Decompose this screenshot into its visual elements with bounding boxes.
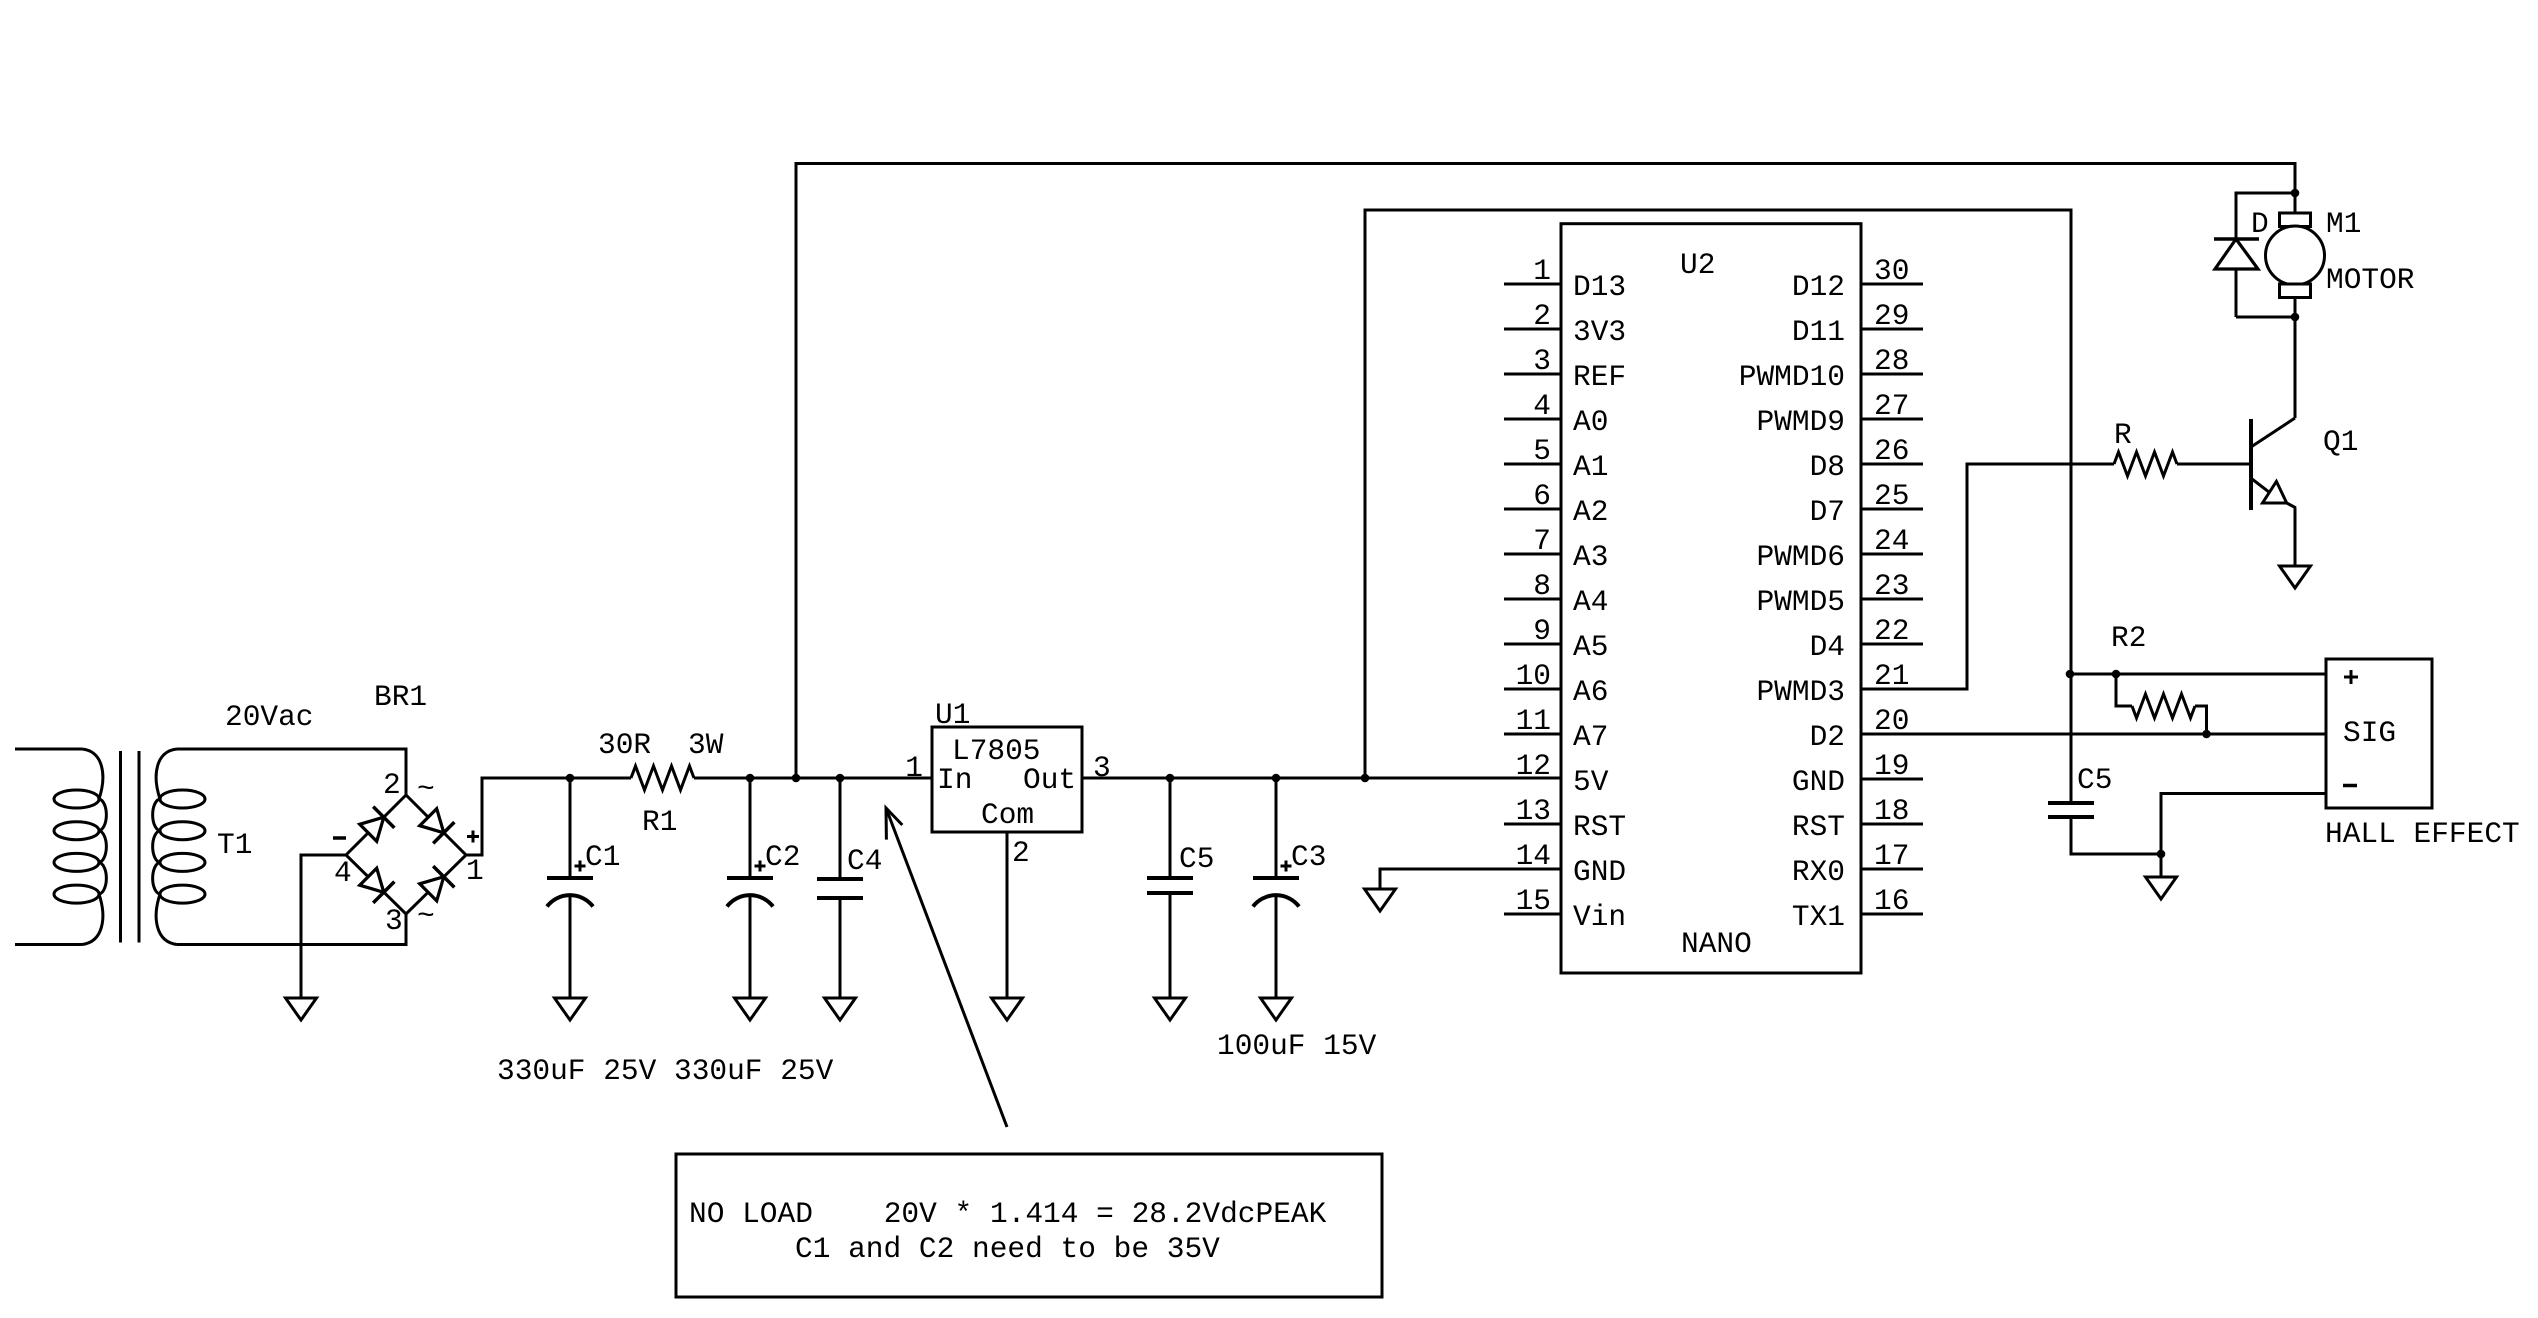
svg-text:3: 3 xyxy=(1533,344,1551,378)
svg-text:30R: 30R xyxy=(598,728,651,762)
svg-text:6: 6 xyxy=(1533,479,1551,513)
svg-text:C1 and C2 need to be 35V: C1 and C2 need to be 35V xyxy=(795,1232,1220,1266)
U2 pin 4 A0 xyxy=(1504,389,1608,439)
svg-text:2: 2 xyxy=(383,768,401,802)
node motor bottom xyxy=(2291,313,2300,322)
U2 pin 7 A3 xyxy=(1504,524,1608,574)
svg-text:Vin: Vin xyxy=(1573,900,1626,934)
U2 pin 16 TX1 xyxy=(1792,884,1923,934)
U2 pin 26 D8 xyxy=(1810,434,1923,484)
svg-text:A6: A6 xyxy=(1573,675,1608,709)
node 5V hall supply corner xyxy=(2066,670,2075,679)
svg-text:1: 1 xyxy=(466,854,484,888)
ground at U1 Com xyxy=(992,998,1023,1020)
U2 pin 20 D2 xyxy=(1810,704,1923,754)
svg-text:D12: D12 xyxy=(1792,270,1845,304)
svg-text:4: 4 xyxy=(1533,389,1551,423)
resistor R xyxy=(2114,452,2177,476)
wire 5V feedback rail to hall supply xyxy=(1365,210,2071,778)
node rail at feedback wire xyxy=(792,774,801,783)
svg-text:D13: D13 xyxy=(1573,270,1626,304)
wire diode D bracket xyxy=(2236,193,2295,317)
U2 pin 3 REF xyxy=(1504,344,1626,394)
svg-text:A0: A0 xyxy=(1573,405,1608,439)
capacitor C4 plates xyxy=(817,877,863,881)
wire U1 Out to U2 pin12 5V rail xyxy=(1082,777,1561,780)
svg-text:RX0: RX0 xyxy=(1792,855,1845,889)
diode D xyxy=(2214,239,2259,269)
U2 pin 19 GND xyxy=(1792,749,1923,799)
capacitor C2 plates xyxy=(727,876,773,880)
svg-text:D2: D2 xyxy=(1810,720,1845,754)
svg-text:D8: D8 xyxy=(1810,450,1845,484)
capacitor C5 plates xyxy=(1147,876,1193,880)
svg-text:PWMD10: PWMD10 xyxy=(1739,360,1845,394)
svg-text:19: 19 xyxy=(1874,749,1909,783)
svg-text:12: 12 xyxy=(1516,749,1551,783)
svg-text:20Vac: 20Vac xyxy=(225,700,314,734)
transistor Q1 xyxy=(2251,418,2296,510)
svg-text:18: 18 xyxy=(1874,794,1909,828)
svg-text:SIG: SIG xyxy=(2343,716,2396,750)
motor M1 xyxy=(2266,193,2325,317)
svg-text:A7: A7 xyxy=(1573,720,1608,754)
capacitor C3 plus mark xyxy=(1281,861,1292,872)
U2 pin 23 PWMD5 xyxy=(1756,569,1923,619)
bridge rectifier BR1 xyxy=(346,795,466,914)
wire 5V supply to hall plus xyxy=(2070,673,2326,676)
BR1 plus mark xyxy=(467,831,479,843)
svg-text:5: 5 xyxy=(1533,434,1551,468)
node motor top xyxy=(2291,189,2300,198)
svg-text:R1: R1 xyxy=(642,805,677,839)
svg-text:NANO: NANO xyxy=(1681,927,1752,961)
U2 pin 21 PWMD3 xyxy=(1756,659,1923,709)
U2 pin 30 D12 xyxy=(1792,254,1923,304)
svg-text:D7: D7 xyxy=(1810,495,1845,529)
svg-text:330uF 25V: 330uF 25V xyxy=(497,1054,657,1088)
microcontroller U2 NANO box xyxy=(1561,224,1861,973)
wire Q1 collector to motor xyxy=(2294,317,2297,418)
ground at C1 xyxy=(555,998,586,1020)
svg-text:2: 2 xyxy=(1533,299,1551,333)
ground at C4 xyxy=(825,998,856,1020)
ground at C3 xyxy=(1261,998,1292,1020)
note leader arrow xyxy=(886,808,1007,1127)
node rail at C1 xyxy=(566,774,575,783)
svg-text:29: 29 xyxy=(1874,299,1909,333)
svg-text:23: 23 xyxy=(1874,569,1909,603)
note box xyxy=(676,1154,1382,1297)
svg-text:D11: D11 xyxy=(1792,315,1845,349)
wire Q1 emitter to ground xyxy=(2294,508,2297,566)
svg-text:3: 3 xyxy=(1093,751,1111,785)
node rail at C2 xyxy=(746,774,755,783)
wire VIN feedback rail to motor xyxy=(796,164,2295,779)
U2 pin 12 5V xyxy=(1516,749,1609,799)
node R2 to SIG line xyxy=(2202,730,2211,739)
svg-text:A1: A1 xyxy=(1573,450,1608,484)
U2 pin 5 A1 xyxy=(1504,434,1608,484)
svg-text:TX1: TX1 xyxy=(1792,900,1845,934)
svg-text:HALL EFFECT: HALL EFFECT xyxy=(2325,817,2520,851)
svg-text:PWMD3: PWMD3 xyxy=(1756,675,1845,709)
svg-text:A4: A4 xyxy=(1573,585,1608,619)
node R2 top tap xyxy=(2112,670,2121,679)
wire U1 Com to ground xyxy=(1006,832,1009,998)
svg-text:330uF 25V: 330uF 25V xyxy=(674,1054,834,1088)
hall label minus xyxy=(2343,784,2357,788)
node rail at C4 xyxy=(836,774,845,783)
svg-text:PWMD5: PWMD5 xyxy=(1756,585,1845,619)
svg-text:100uF 15V: 100uF 15V xyxy=(1217,1029,1377,1063)
capacitor C5 bottom leg xyxy=(1169,893,1172,998)
capacitor C2 bottom leg xyxy=(749,894,752,998)
svg-text:GND: GND xyxy=(1792,765,1845,799)
svg-text:R2: R2 xyxy=(2111,621,2146,655)
wire BR1 minus to ground xyxy=(301,855,346,998)
capacitor C4 top leg xyxy=(839,778,842,879)
capacitor C3 top leg xyxy=(1275,778,1278,878)
svg-text:PWMD9: PWMD9 xyxy=(1756,405,1845,439)
svg-text:27: 27 xyxy=(1874,389,1909,423)
U2 pin 10 A6 xyxy=(1504,659,1608,709)
wire secondary top to BR1 pin2 xyxy=(177,749,406,795)
svg-text:A5: A5 xyxy=(1573,630,1608,664)
capacitor C2 plus mark xyxy=(755,861,766,872)
svg-text:T1: T1 xyxy=(217,828,252,862)
wire BR1 plus to rail xyxy=(466,778,570,855)
ground at C5 xyxy=(1155,998,1186,1020)
svg-text:28: 28 xyxy=(1874,344,1909,378)
U2 pin 6 A2 xyxy=(1504,479,1608,529)
svg-text:RST: RST xyxy=(1573,810,1626,844)
svg-text:5V: 5V xyxy=(1573,765,1609,799)
wire C1 node to R1 xyxy=(570,777,631,780)
svg-text:25: 25 xyxy=(1874,479,1909,513)
svg-text:16: 16 xyxy=(1874,884,1909,918)
capacitor C3 bottom leg xyxy=(1275,894,1278,998)
svg-text:C1: C1 xyxy=(585,840,620,874)
svg-text:30: 30 xyxy=(1874,254,1909,288)
hall label plus xyxy=(2344,670,2358,684)
U2 pin 2 3V3 xyxy=(1504,299,1626,349)
U2 pin 22 D4 xyxy=(1810,614,1923,664)
svg-text:C5: C5 xyxy=(2077,763,2112,797)
svg-text:Com: Com xyxy=(981,798,1034,832)
resistor R2 xyxy=(2116,674,2207,734)
U2 pin 13 RST xyxy=(1504,794,1626,844)
svg-text:9: 9 xyxy=(1533,614,1551,648)
U2 pin 27 PWMD9 xyxy=(1756,389,1923,439)
svg-text:RST: RST xyxy=(1792,810,1845,844)
svg-text:10: 10 xyxy=(1516,659,1551,693)
svg-text:R: R xyxy=(2114,418,2132,452)
svg-text:BR1: BR1 xyxy=(374,680,427,714)
svg-text:3W: 3W xyxy=(688,728,724,762)
ground at U2 GND xyxy=(1365,889,1396,911)
wire secondary bottom to BR1 pin3 xyxy=(177,914,406,945)
capacitor C5 (hall) plates xyxy=(2048,801,2094,805)
svg-text:13: 13 xyxy=(1516,794,1551,828)
svg-text:17: 17 xyxy=(1874,839,1909,873)
svg-text:Q1: Q1 xyxy=(2323,425,2358,459)
svg-text:15: 15 xyxy=(1516,884,1551,918)
U2 pin 14 GND xyxy=(1504,839,1626,889)
ground at BR1 xyxy=(286,998,317,1020)
U2 pin 18 RST xyxy=(1792,794,1923,844)
capacitor C1 plus mark xyxy=(575,861,586,872)
U2 pin 1 D13 xyxy=(1504,254,1626,304)
svg-text:Out: Out xyxy=(1023,763,1076,797)
svg-text:C3: C3 xyxy=(1291,840,1326,874)
svg-text:C2: C2 xyxy=(765,840,800,874)
U2 pin 15 Vin xyxy=(1504,884,1626,934)
ground at hall sensor xyxy=(2146,877,2177,899)
svg-text:GND: GND xyxy=(1573,855,1626,889)
svg-text:C5: C5 xyxy=(1179,842,1214,876)
svg-text:11: 11 xyxy=(1516,704,1551,738)
svg-text:2: 2 xyxy=(1012,836,1030,870)
svg-text:C4: C4 xyxy=(847,844,882,878)
U2 pin 25 D7 xyxy=(1810,479,1923,529)
resistor R1 xyxy=(631,766,694,790)
svg-text:~: ~ xyxy=(417,899,435,933)
U2 pin 28 PWMD10 xyxy=(1739,344,1923,394)
ground at C2 xyxy=(735,998,766,1020)
wire U2 D2 pin20 to hall SIG xyxy=(1861,733,2326,736)
ground at Q1 emitter xyxy=(2280,566,2311,588)
regulator U1 L7805 box xyxy=(932,727,1082,832)
svg-text:22: 22 xyxy=(1874,614,1909,648)
capacitor C2 top leg xyxy=(749,778,752,878)
node rail at C3 xyxy=(1272,774,1281,783)
capacitor C1 top leg xyxy=(569,778,572,878)
svg-text:NO LOAD 20V * 1.414 = 28.2V: NO LOAD 20V * 1.414 = 28.2VdcPEAK xyxy=(689,1197,1327,1231)
hall effect sensor box xyxy=(2326,659,2432,808)
svg-text:A2: A2 xyxy=(1573,495,1608,529)
svg-text:A3: A3 xyxy=(1573,540,1608,574)
wire hall minus to ground xyxy=(2161,794,2326,878)
svg-text:D: D xyxy=(2251,207,2269,241)
svg-text:8: 8 xyxy=(1533,569,1551,603)
svg-text:U2: U2 xyxy=(1680,248,1715,282)
U2 pin 29 D11 xyxy=(1792,299,1923,349)
svg-text:In: In xyxy=(937,763,972,797)
node rail at C5 xyxy=(1166,774,1175,783)
BR1 minus mark xyxy=(333,836,346,840)
capacitor C5 (hall) bottom leg xyxy=(2071,817,2161,854)
wire R to Q1 base xyxy=(2177,463,2251,466)
svg-text:1: 1 xyxy=(1533,254,1551,288)
svg-text:REF: REF xyxy=(1573,360,1626,394)
transformer T1 xyxy=(15,749,205,945)
capacitor C4 bottom leg xyxy=(839,898,842,998)
svg-text:~: ~ xyxy=(417,772,435,806)
wire R1 to U1 In xyxy=(694,777,932,780)
capacitor C1 plates xyxy=(547,876,593,880)
svg-text:PWMD6: PWMD6 xyxy=(1756,540,1845,574)
svg-text:3: 3 xyxy=(385,904,403,938)
wire U2 PWMD3 pin21 to resistor R xyxy=(1861,464,2114,689)
svg-text:M1: M1 xyxy=(2326,207,2361,241)
svg-text:7: 7 xyxy=(1533,524,1551,558)
svg-text:1: 1 xyxy=(905,751,923,785)
svg-text:26: 26 xyxy=(1874,434,1909,468)
U2 pin 24 PWMD6 xyxy=(1756,524,1923,574)
svg-text:D4: D4 xyxy=(1810,630,1845,664)
wire U2 GND pin14 to ground xyxy=(1380,869,1561,889)
svg-text:3V3: 3V3 xyxy=(1573,315,1626,349)
capacitor C1 bottom leg xyxy=(569,894,572,998)
capacitor C3 plates xyxy=(1253,876,1299,880)
U2 pin 9 A5 xyxy=(1504,614,1608,664)
svg-text:MOTOR: MOTOR xyxy=(2326,263,2415,297)
capacitor C5 top leg xyxy=(1169,778,1172,878)
U2 pin 11 A7 xyxy=(1504,704,1608,754)
svg-text:24: 24 xyxy=(1874,524,1909,558)
node hall ground xyxy=(2157,850,2166,859)
svg-text:4: 4 xyxy=(334,856,352,890)
node rail at 5V feedback wire xyxy=(1361,774,1370,783)
capacitor C5 (hall) top leg xyxy=(2070,674,2073,803)
U2 pin 17 RX0 xyxy=(1792,839,1923,889)
U2 pin 8 A4 xyxy=(1504,569,1608,619)
